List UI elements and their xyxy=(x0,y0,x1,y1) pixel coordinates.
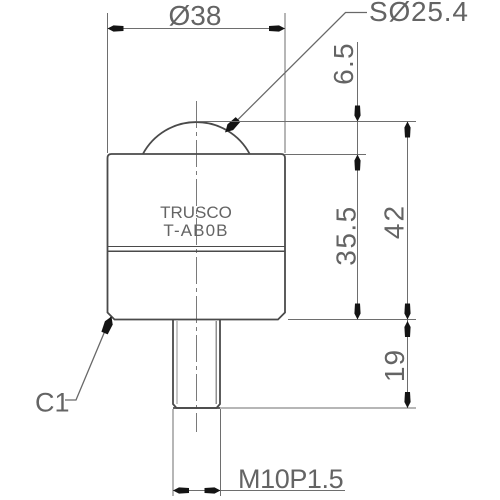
stud outline xyxy=(173,320,220,409)
svg-text:C1: C1 xyxy=(35,388,70,418)
stud bottom face xyxy=(173,407,220,409)
body outline xyxy=(108,154,286,320)
body joint line upper xyxy=(108,246,286,248)
svg-text:6.5: 6.5 xyxy=(328,42,359,85)
svg-text:T-AB0B: T-AB0B xyxy=(163,221,228,240)
thread root line right xyxy=(215,321,217,404)
dimension Ø38 extension line left xyxy=(107,13,109,153)
ball arc xyxy=(143,122,250,154)
extension line ball top xyxy=(197,121,417,123)
svg-text:19: 19 xyxy=(379,349,410,382)
thread root line left xyxy=(176,321,178,404)
dimension Ø38 arrow left xyxy=(108,25,124,31)
dimension 6.5 and 35.5 line xyxy=(357,42,359,320)
dimension 42 arrow up xyxy=(404,122,410,138)
dimension Ø38 line xyxy=(108,28,286,30)
dimension 35.5 arrow up xyxy=(354,155,360,171)
chamfer leader C1 line xyxy=(65,317,111,401)
dimension 42 line xyxy=(407,122,409,320)
centerline xyxy=(196,101,198,432)
dimension 19 arrow up xyxy=(404,321,410,337)
extension line stud bottom xyxy=(220,407,416,409)
extension line body top right xyxy=(284,154,366,156)
dimension Ø38 extension line right xyxy=(284,13,286,153)
dimension M10P1.5 extension line left xyxy=(172,409,174,496)
chamfer leader C1 arrow xyxy=(101,317,112,335)
extension line body bottom right xyxy=(288,319,416,321)
dimension M10P1.5 line xyxy=(173,490,345,492)
svg-text:TRUSCO: TRUSCO xyxy=(160,203,232,222)
dimension 42 arrow down xyxy=(404,304,410,320)
dimension 35.5 arrow down xyxy=(354,304,360,320)
dimension 6.5 arrow down xyxy=(354,106,360,122)
dimension Ø38 arrow right xyxy=(269,25,285,31)
svg-text:Ø38: Ø38 xyxy=(169,0,222,31)
svg-text:42: 42 xyxy=(379,204,410,239)
body joint line lower xyxy=(108,250,286,252)
leader SØ25.4 line xyxy=(225,13,367,133)
svg-text:SØ25.4: SØ25.4 xyxy=(369,0,469,27)
leader SØ25.4 arrow xyxy=(225,117,240,132)
svg-text:35.5: 35.5 xyxy=(331,205,362,266)
dimension M10P1.5 arrow right xyxy=(205,487,221,493)
svg-text:M10P1.5: M10P1.5 xyxy=(238,464,343,494)
dimension 19 arrow down xyxy=(404,392,410,408)
dimension M10P1.5 arrow left xyxy=(173,487,189,493)
dimension M10P1.5 extension line right xyxy=(220,409,222,496)
dimension 19 line xyxy=(407,320,409,409)
